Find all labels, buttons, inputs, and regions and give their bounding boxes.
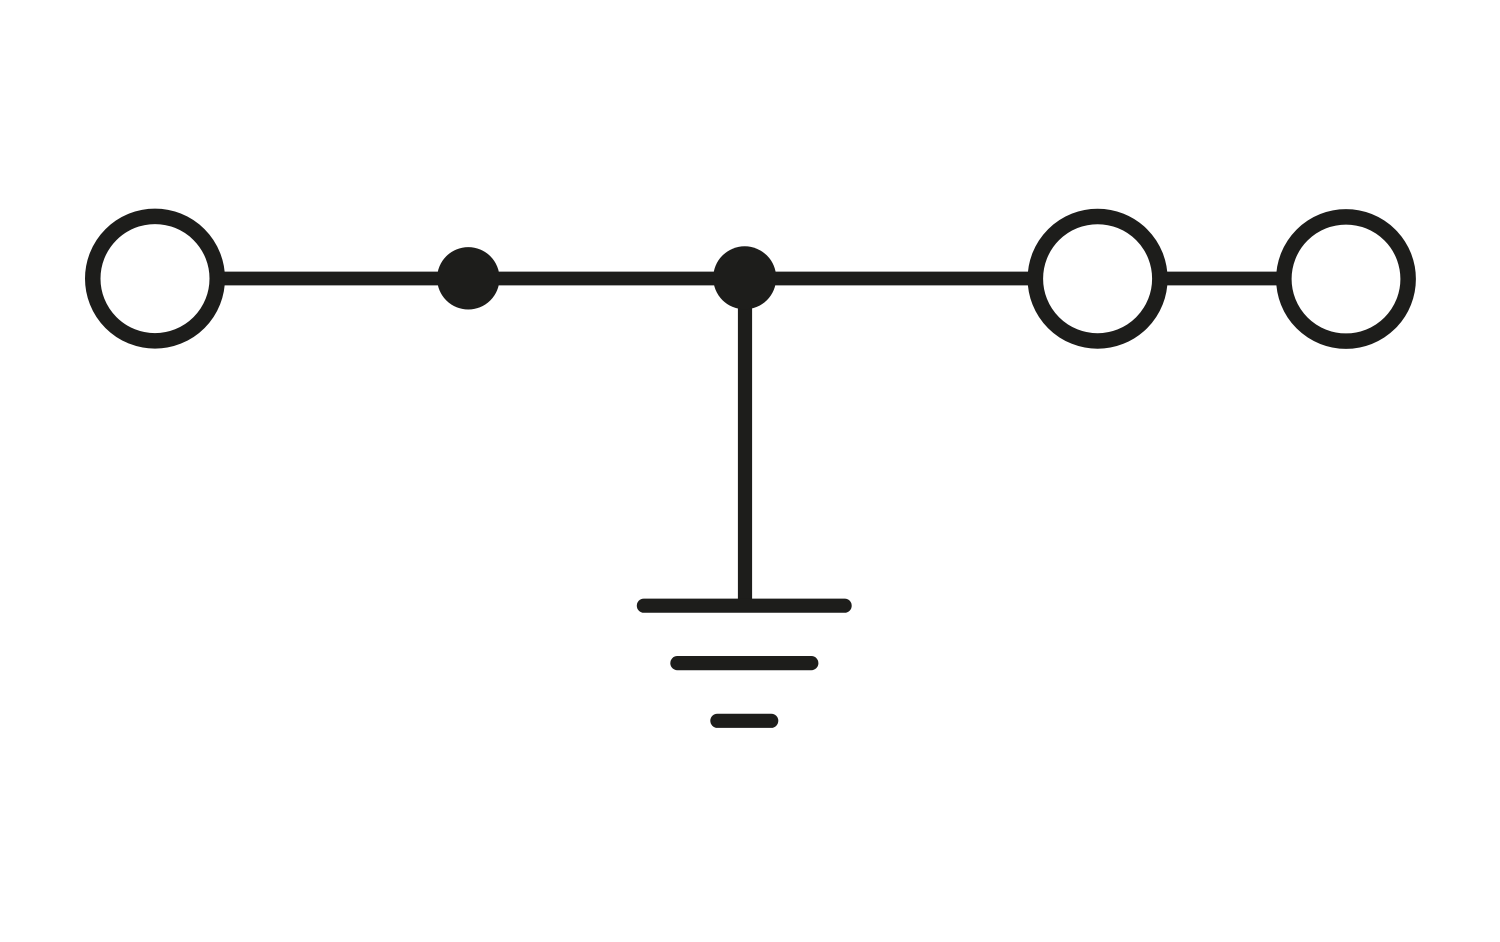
terminal 1 (left connection point) (93, 216, 218, 341)
wire: vertical drop from PE node to ground (738, 279, 752, 606)
terminal 2 (right connection point) (1035, 216, 1160, 341)
node: junction dot on bus (437, 247, 499, 309)
ground: bottom bar (717, 714, 771, 728)
ground: middle bar (677, 656, 811, 670)
wire: main horizontal bus from terminal 1 to terminal 2 (218, 272, 1034, 286)
wire: bridge between terminal 2 and terminal 3 (1161, 272, 1282, 286)
ground: top bar (644, 599, 845, 613)
node: PE junction dot (tap to ground) (713, 246, 776, 309)
terminal 3 (rightmost connection point) (1284, 217, 1408, 341)
